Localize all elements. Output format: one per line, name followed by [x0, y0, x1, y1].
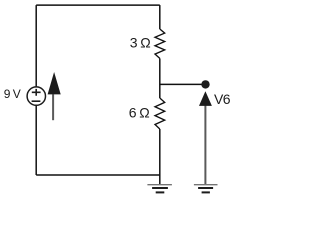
wire right branch bottom lead to ground	[159, 129, 161, 184]
ground (under V6 arrow)	[194, 185, 218, 193]
svg-text:V6: V6	[214, 91, 231, 107]
svg-text:3 Ω: 3 Ω	[130, 35, 151, 51]
voltage source V1 9V	[27, 87, 45, 105]
wire right branch top lead	[159, 5, 161, 29]
svg-text:6 Ω: 6 Ω	[129, 105, 150, 121]
wire middle lead between resistors	[159, 58, 161, 98]
current direction arrow (annotation, left)	[48, 72, 61, 120]
voltage arrow V6 (annotation, right)	[199, 91, 212, 184]
resistor 3 ohm	[155, 29, 165, 58]
node V6 dot	[201, 80, 209, 88]
wire left	[35, 5, 37, 175]
wire bottom	[36, 174, 160, 176]
ground (under resistor branch)	[147, 185, 172, 193]
svg-text:9 V: 9 V	[4, 87, 21, 101]
wire node junction horizontal	[160, 83, 206, 85]
wire top	[36, 4, 160, 6]
resistor 6 ohm	[155, 98, 165, 129]
